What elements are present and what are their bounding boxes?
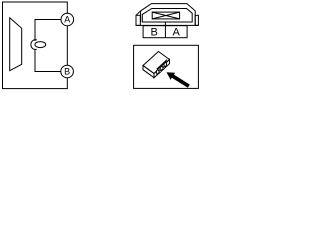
reflector lens xyxy=(10,18,22,71)
svg-text:B: B xyxy=(151,26,158,38)
latch X-box xyxy=(152,12,179,19)
wire bottom xyxy=(35,49,61,72)
socket ridge on top face xyxy=(157,60,167,70)
socket collar xyxy=(156,62,166,75)
figure frame xyxy=(134,45,199,88)
connector end face xyxy=(154,60,170,78)
divider stub xyxy=(164,22,166,26)
housing inner rim xyxy=(142,9,192,23)
housing left ear xyxy=(136,15,140,25)
bulb L1 wire curl xyxy=(31,40,37,50)
connector body front face xyxy=(143,66,154,78)
wire top xyxy=(35,20,61,42)
housing 3D edge xyxy=(140,11,142,22)
svg-text:A: A xyxy=(173,26,181,38)
terminal A xyxy=(61,13,74,26)
connector body top face xyxy=(143,52,170,74)
lamp assembly box xyxy=(3,2,68,89)
arrow xyxy=(167,72,190,88)
pin slots xyxy=(158,64,165,73)
svg-text:B: B xyxy=(64,67,70,77)
connector C1 housing outer xyxy=(136,4,198,26)
terminal cells xyxy=(143,26,187,39)
svg-text:A: A xyxy=(64,15,70,25)
housing right ear xyxy=(195,15,198,25)
terminal B xyxy=(61,65,74,78)
bulb L1 filament loop xyxy=(35,42,46,48)
